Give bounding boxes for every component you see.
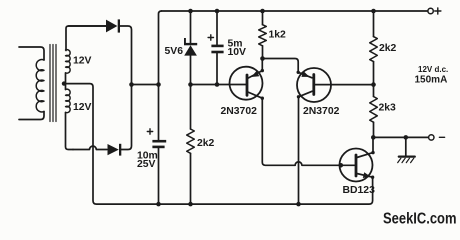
svg-text:12V d.c.: 12V d.c.: [418, 65, 448, 74]
svg-text:150mA: 150mA: [415, 75, 448, 86]
svg-text:12V: 12V: [73, 102, 92, 113]
svg-text:SeekIC.com: SeekIC.com: [383, 211, 457, 228]
svg-text:12V: 12V: [73, 56, 92, 67]
svg-text:2k3: 2k3: [379, 103, 397, 114]
svg-text:5V6: 5V6: [165, 46, 184, 57]
svg-text:2k2: 2k2: [197, 138, 215, 149]
svg-text:25V: 25V: [137, 159, 156, 170]
svg-text:2N3702: 2N3702: [303, 106, 340, 117]
svg-text:10V: 10V: [228, 47, 247, 58]
svg-text:BD123: BD123: [343, 185, 376, 196]
svg-text:2N3702: 2N3702: [221, 106, 258, 117]
svg-text:1k2: 1k2: [269, 29, 287, 40]
svg-text:2k2: 2k2: [379, 43, 397, 54]
